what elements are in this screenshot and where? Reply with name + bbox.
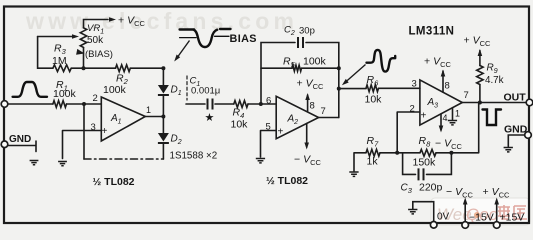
svg-text:4.7k: 4.7k (485, 75, 504, 86)
svg-text:+15V: +15V (500, 212, 525, 224)
svg-text:3: 3 (412, 79, 417, 90)
svg-text:R6: R6 (367, 74, 380, 88)
svg-text:30p: 30p (299, 26, 315, 37)
svg-text:D1: D1 (171, 85, 182, 98)
svg-text:0V: 0V (437, 212, 450, 223)
svg-text:+ VCC: + VCC (424, 56, 451, 70)
svg-text:10k: 10k (365, 94, 383, 106)
svg-text:100k: 100k (103, 84, 127, 96)
svg-text:R5: R5 (283, 56, 296, 70)
svg-text:★: ★ (205, 112, 215, 124)
svg-text:1: 1 (146, 105, 151, 115)
svg-text:220p: 220p (419, 182, 443, 194)
svg-text:6: 6 (266, 96, 271, 107)
svg-text:− VCC: − VCC (435, 138, 462, 152)
svg-text:100k: 100k (303, 56, 327, 68)
svg-text:3: 3 (91, 122, 96, 133)
svg-text:8: 8 (445, 81, 450, 92)
svg-text:OUT: OUT (504, 92, 527, 104)
svg-text:1S1588 ×2: 1S1588 ×2 (170, 151, 218, 162)
svg-text:5: 5 (266, 122, 271, 133)
svg-text:1k: 1k (367, 156, 379, 168)
svg-text:7: 7 (464, 90, 469, 101)
svg-text:R7: R7 (367, 135, 380, 149)
svg-text:−15V: −15V (469, 212, 494, 224)
svg-text:150k: 150k (413, 157, 437, 169)
svg-text:+: + (102, 126, 108, 137)
svg-text:www.elecfans.com: www.elecfans.com (25, 8, 298, 34)
svg-text:½ TL082: ½ TL082 (266, 175, 308, 187)
svg-text:(BIAS): (BIAS) (85, 49, 113, 60)
svg-text:4: 4 (443, 113, 448, 123)
svg-text:+: + (421, 111, 427, 122)
svg-text:7: 7 (321, 106, 326, 117)
svg-text:+: + (278, 127, 284, 138)
svg-text:D2: D2 (171, 134, 182, 147)
svg-text:2: 2 (410, 104, 415, 115)
svg-text:1: 1 (455, 109, 460, 119)
svg-text:+ VCC: + VCC (464, 35, 491, 49)
svg-text:LM311N: LM311N (409, 26, 455, 38)
svg-text:R8: R8 (419, 135, 432, 149)
svg-text:GND: GND (9, 134, 31, 145)
svg-text:BIAS: BIAS (230, 33, 257, 45)
svg-text:R3: R3 (54, 43, 67, 57)
svg-text:− VCC: − VCC (446, 186, 473, 200)
svg-text:0.001μ: 0.001μ (191, 86, 220, 97)
svg-text:+ VCC: + VCC (483, 186, 510, 200)
svg-text:8: 8 (310, 101, 315, 112)
svg-text:R9: R9 (487, 63, 498, 76)
svg-text:1M: 1M (52, 55, 67, 67)
svg-text:C3: C3 (401, 183, 413, 196)
svg-text:10k: 10k (231, 119, 249, 131)
svg-text:50k: 50k (87, 35, 104, 46)
svg-text:GND: GND (504, 124, 528, 136)
svg-text:½ TL082: ½ TL082 (93, 176, 135, 188)
svg-text:2: 2 (93, 93, 98, 104)
svg-text:100k: 100k (53, 88, 77, 100)
svg-text:A1: A1 (110, 113, 122, 126)
svg-text:− VCC: − VCC (294, 154, 321, 168)
svg-text:A2: A2 (287, 114, 299, 127)
svg-text:A3: A3 (427, 97, 439, 110)
svg-text:+ VCC: + VCC (297, 78, 324, 92)
